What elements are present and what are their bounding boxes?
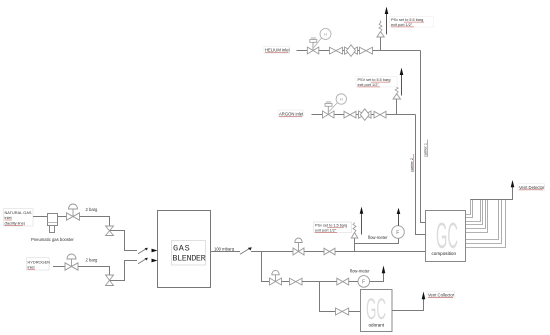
svg-text:carrier 1: carrier 1	[424, 143, 428, 157]
svg-text:(facility line): (facility line)	[5, 221, 26, 226]
vent collector arrow	[422, 292, 426, 300]
filter/check valve (argon)	[359, 109, 372, 121]
valve (hydrogen, vertical)	[106, 275, 114, 286]
control valve (odorant line)	[270, 270, 282, 285]
label carrier 1	[424, 140, 428, 158]
svg-text:PSv set to 5.5 barg: PSv set to 5.5 barg	[391, 18, 423, 22]
svg-text:odorant: odorant	[369, 322, 385, 327]
svg-text:2 barg: 2 barg	[86, 258, 99, 263]
label carrier 2	[410, 154, 414, 172]
svg-text:100 mbarg: 100 mbarg	[214, 246, 235, 251]
svg-text:composition: composition	[432, 251, 457, 256]
wire	[312, 114, 416, 116]
svg-text:PSV set to 5.5 barg: PSV set to 5.5 barg	[358, 78, 391, 82]
vent detector arrow	[511, 180, 515, 187]
wire carrier 2 (argon)	[416, 115, 426, 235]
valve (natural gas, vertical)	[106, 226, 114, 236]
wire loop 3	[466, 199, 481, 222]
hand valve (flow-meter line)	[337, 278, 349, 285]
svg-text:carrier 2: carrier 2	[410, 158, 414, 172]
wire loop 5	[466, 199, 486, 229]
svg-text:inlet: inlet	[5, 215, 13, 220]
wire	[302, 281, 337, 283]
pressure regulator (hydrogen)	[65, 254, 78, 270]
wire lower odorant	[320, 282, 336, 312]
svg-text:exit port 1/2": exit port 1/2"	[358, 83, 380, 87]
wire branch down	[262, 252, 270, 282]
wire	[80, 217, 110, 227]
svg-text:GC: GC	[436, 215, 458, 256]
flow-meter (main line)	[355, 208, 405, 244]
gas blender box	[158, 211, 211, 288]
svg-text:Vent Collector: Vent Collector	[428, 292, 455, 297]
hand valve 2 (helium)	[360, 47, 373, 54]
relief valve PSV (main line 1.5 barg)	[351, 207, 363, 252]
svg-text:F: F	[362, 279, 365, 285]
svg-text:Pneumatic gas booster: Pneumatic gas booster	[31, 237, 74, 242]
hand valve (odorant GC inlet)	[336, 308, 349, 315]
svg-text:BLENDER: BLENDER	[172, 253, 205, 263]
svg-text:2 barg: 2 barg	[86, 207, 99, 212]
connector (blender outlet)	[240, 247, 252, 254]
svg-text:GC: GC	[366, 293, 386, 326]
svg-text:H: H	[324, 33, 327, 37]
wire blender outlet	[211, 251, 241, 253]
hand valve (odorant line)	[290, 278, 303, 285]
svg-text:HELIUM inlet: HELIUM inlet	[265, 48, 291, 53]
wire	[78, 267, 110, 276]
svg-text:exit port 1/2": exit port 1/2"	[391, 23, 413, 27]
label vent collector	[427, 291, 455, 298]
wire	[53, 266, 65, 268]
svg-text:ARGON inlet: ARGON inlet	[279, 111, 304, 116]
GC composition box	[426, 211, 466, 262]
wire main line	[251, 251, 425, 253]
pressure regulator (natural gas)	[67, 204, 80, 220]
label PSV 5.5 barg (helium)	[390, 17, 434, 28]
wire	[349, 311, 361, 313]
svg-text:GAS: GAS	[173, 243, 190, 253]
wire	[110, 261, 137, 281]
label argon inlet	[278, 110, 304, 117]
GC odorant box	[361, 290, 393, 332]
control valve (argon)	[323, 102, 335, 118]
wire loop 1	[466, 199, 471, 215]
relief valve PSV (argon 5.5 barg)	[393, 68, 403, 115]
connector (NG to blender)	[138, 248, 158, 254]
hand valve (helium)	[330, 47, 343, 54]
wire	[297, 50, 421, 52]
svg-text:F: F	[396, 230, 399, 236]
relief valve PSV (helium 5.5 barg)	[377, 7, 388, 51]
connector (H2 to blender)	[138, 258, 158, 264]
wire	[58, 216, 67, 218]
wire loop 4	[466, 199, 483, 225]
control valve (main line)	[293, 238, 304, 255]
svg-text:exit port 1/2": exit port 1/2"	[315, 228, 337, 232]
label hydrogen inlet	[27, 258, 51, 271]
wire loop 8	[466, 199, 502, 244]
hand valve (argon)	[344, 111, 356, 118]
svg-text:flow-meter: flow-meter	[368, 235, 388, 240]
wire vent manifold	[471, 187, 513, 200]
pneumatic gas booster	[48, 214, 58, 233]
label vent detector	[518, 184, 545, 191]
instrument bubble (argon)	[329, 94, 346, 112]
label PSV 1.5 barg	[314, 222, 352, 233]
filter/check valve (helium)	[345, 45, 358, 57]
hand valve 2 (argon)	[374, 111, 386, 118]
label natural gas inlet	[4, 209, 34, 227]
wire	[110, 231, 137, 251]
label PSV 5.5 barg (argon)	[356, 77, 397, 88]
svg-text:inlet: inlet	[28, 265, 36, 270]
wire loop 2	[466, 199, 473, 218]
control valve (helium)	[307, 38, 319, 54]
label helium inlet	[264, 46, 291, 53]
svg-text:Vent Detector: Vent Detector	[519, 185, 545, 190]
wire loop 6	[466, 199, 488, 233]
wire vent collector	[392, 299, 424, 311]
svg-text:H: H	[340, 98, 343, 102]
svg-text:PSv set to 1.5 barg: PSv set to 1.5 barg	[315, 224, 347, 228]
flow-meter (odorant)	[349, 266, 386, 288]
hand valve (main line)	[324, 248, 335, 255]
svg-text:flow-meter: flow-meter	[350, 269, 370, 274]
wire loop 7	[466, 199, 499, 240]
instrument bubble (helium)	[314, 29, 331, 48]
wire loop 9	[466, 199, 506, 248]
wire carrier 1 (helium)	[421, 51, 426, 223]
wire	[282, 281, 290, 283]
wire	[33, 216, 47, 218]
